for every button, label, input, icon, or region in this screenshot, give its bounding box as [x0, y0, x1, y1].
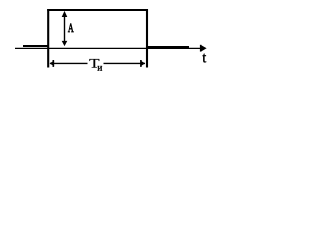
pulse-width dimension arrow (double-headed horizontal)	[50, 60, 146, 67]
wire: pulse left edge (with extension below axis)	[47, 9, 49, 68]
label T (pulse width)	[89, 59, 99, 68]
label subscript и	[98, 66, 103, 71]
axis arrowhead	[200, 45, 207, 52]
wire: pulse top	[47, 9, 148, 11]
t axis label	[203, 54, 207, 63]
label A	[68, 24, 74, 32]
wire: pulse right edge (with extension below axis)	[146, 9, 148, 68]
time axis	[15, 47, 203, 49]
wire: waveform baseline before pulse	[23, 45, 49, 47]
amplitude arrow (double-headed vertical)	[62, 11, 68, 46]
wire: waveform baseline after pulse	[146, 46, 189, 48]
